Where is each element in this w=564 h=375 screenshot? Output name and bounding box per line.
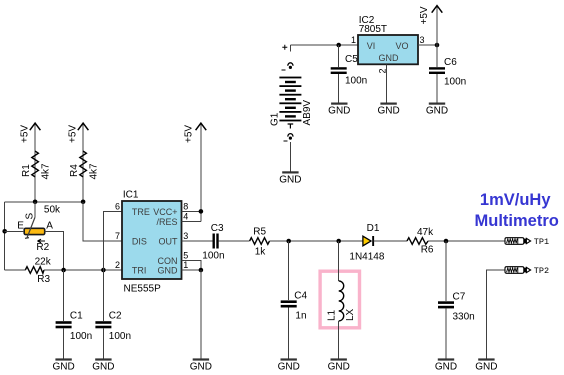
capacitor C1 xyxy=(56,270,93,358)
wire R6 to TP1 xyxy=(428,240,505,242)
capacitor C4 xyxy=(281,241,308,358)
svg-text:7805T: 7805T xyxy=(359,24,387,35)
power +5V arrow (top right) xyxy=(419,6,442,45)
wire IC2 GND pin down xyxy=(386,64,388,102)
svg-text:GND: GND xyxy=(328,362,350,373)
svg-text:DIS: DIS xyxy=(132,237,147,247)
capacitor C6 xyxy=(429,45,466,103)
svg-text:R6: R6 xyxy=(421,245,434,256)
svg-text:GND: GND xyxy=(475,362,497,373)
diode D1 1N4148 xyxy=(349,223,384,263)
svg-text:VI: VI xyxy=(367,41,376,51)
svg-text:22k: 22k xyxy=(35,257,52,268)
ground (C4) xyxy=(278,358,300,372)
svg-text:+5V: +5V xyxy=(68,125,79,143)
svg-text:7: 7 xyxy=(115,231,120,241)
ground (C6) xyxy=(426,103,448,117)
svg-text:CON: CON xyxy=(158,256,178,266)
wire D1 to R6 xyxy=(374,240,407,242)
resistor R6 47k xyxy=(407,227,434,256)
svg-text:GND: GND xyxy=(426,106,448,117)
svg-text:GND: GND xyxy=(279,175,301,186)
node pin1/pin5 junction xyxy=(199,268,204,273)
svg-text:5: 5 xyxy=(183,251,188,261)
wire C3 to R5 xyxy=(218,240,249,242)
resistor R5 1k xyxy=(250,226,270,257)
svg-text:C4: C4 xyxy=(294,291,307,302)
wire pin1 to GND xyxy=(200,270,202,358)
svg-text:GND: GND xyxy=(379,53,400,63)
ground (TP2) xyxy=(475,358,497,372)
power +5V arrow (R4) xyxy=(68,123,89,202)
battery G1 xyxy=(269,45,313,141)
svg-text:R5: R5 xyxy=(253,226,266,237)
node R4/DIS junction xyxy=(81,200,86,205)
capacitor C7 xyxy=(438,241,475,358)
svg-text:NE555P: NE555P xyxy=(124,284,162,295)
svg-text:C1: C1 xyxy=(70,310,83,321)
svg-text:100n: 100n xyxy=(202,251,224,262)
wire pin5 loop xyxy=(182,261,201,271)
svg-text:3: 3 xyxy=(183,231,188,241)
svg-text:3: 3 xyxy=(420,35,425,45)
svg-text:VCC+: VCC+ xyxy=(153,207,177,217)
svg-text:TP1: TP1 xyxy=(534,237,549,247)
svg-text:A: A xyxy=(46,221,53,232)
svg-text:GND: GND xyxy=(278,362,300,373)
wire IC2 VO to +5V/C6 xyxy=(418,44,437,46)
wire 50k rail xyxy=(5,201,83,203)
svg-text:C3: C3 xyxy=(211,223,224,234)
resistor R1 4k7 xyxy=(21,151,51,179)
connector TP2 xyxy=(505,266,549,276)
node pin6/C2 junction xyxy=(101,268,106,273)
svg-text:GND: GND xyxy=(435,362,457,373)
wire pin4 xyxy=(182,220,201,222)
svg-text:Multimetro: Multimetro xyxy=(475,212,559,230)
wire battery bottom to GND xyxy=(289,142,291,172)
svg-text:+5V: +5V xyxy=(20,125,31,143)
ground (battery) xyxy=(279,171,301,185)
wire R3 line to pin2 xyxy=(5,269,122,271)
svg-text:/RES: /RES xyxy=(156,217,177,227)
resistor R3 22k xyxy=(25,257,51,285)
svg-text:100n: 100n xyxy=(70,331,92,342)
ground (L1) xyxy=(328,358,350,372)
resistor R4 4k7 xyxy=(69,151,99,179)
svg-text:G1: G1 xyxy=(269,112,280,126)
power +5V arrow (IC1 VCC) xyxy=(184,123,207,221)
wire pin3 to C3 xyxy=(182,240,213,242)
wire pin8 xyxy=(182,210,201,212)
wire TP2 xyxy=(486,270,505,358)
ground (IC1) xyxy=(190,358,212,372)
svg-text:GND: GND xyxy=(52,362,74,373)
svg-text:2: 2 xyxy=(377,68,387,73)
svg-text:TRI: TRI xyxy=(132,266,147,276)
svg-text:GND: GND xyxy=(328,106,350,117)
svg-text:1N4148: 1N4148 xyxy=(349,252,384,263)
svg-text:GND: GND xyxy=(158,266,179,276)
inductor L1 LX xyxy=(320,241,359,358)
capacitor C2 xyxy=(95,270,131,358)
wire left rail down xyxy=(4,202,6,270)
svg-text:4: 4 xyxy=(183,212,188,222)
svg-text:TP2: TP2 xyxy=(534,266,549,276)
wire pin1 xyxy=(182,269,201,271)
svg-text:100n: 100n xyxy=(109,331,131,342)
svg-text:330n: 330n xyxy=(453,311,475,322)
svg-text:GND: GND xyxy=(92,362,114,373)
svg-text:LX: LX xyxy=(345,308,356,321)
svg-text:100n: 100n xyxy=(444,77,466,88)
svg-text:2: 2 xyxy=(115,260,120,270)
power +5V arrow (R1) xyxy=(20,123,41,202)
node C7 junction xyxy=(444,239,449,244)
svg-text:AB9V: AB9V xyxy=(302,100,313,126)
capacitor C5 xyxy=(331,45,368,103)
svg-text:IC1: IC1 xyxy=(123,190,139,201)
node C4 junction xyxy=(286,239,291,244)
svg-text:1k: 1k xyxy=(255,247,267,258)
label title 1mV/uHy Multimetro xyxy=(475,191,559,230)
svg-text:OUT: OUT xyxy=(159,237,179,247)
svg-text:C7: C7 xyxy=(453,292,466,303)
svg-text:4k7: 4k7 xyxy=(40,163,51,180)
capacitor C3 xyxy=(202,223,224,262)
svg-text:R3: R3 xyxy=(37,274,50,285)
svg-text:+5V: +5V xyxy=(419,6,430,24)
ground (C7) xyxy=(435,358,457,372)
wire R5 to D1 xyxy=(270,240,364,242)
wire R4 to pin7 xyxy=(83,202,122,241)
svg-text:8: 8 xyxy=(183,202,188,212)
svg-text:S: S xyxy=(24,213,35,220)
svg-text:R1: R1 xyxy=(21,164,32,177)
ground (IC2 pin2) xyxy=(377,103,399,117)
node pin8/+5V junction xyxy=(199,209,204,214)
svg-text:R2: R2 xyxy=(36,242,49,253)
ground (C1) xyxy=(52,358,74,372)
connector TP1 xyxy=(505,237,549,247)
svg-text:47k: 47k xyxy=(417,227,434,238)
regulator IC2 7805T xyxy=(358,15,418,64)
svg-text:1n: 1n xyxy=(295,311,306,322)
svg-text:+5V: +5V xyxy=(184,125,195,143)
svg-text:4k7: 4k7 xyxy=(88,163,99,180)
svg-text:C6: C6 xyxy=(444,57,457,68)
svg-text:TRE: TRE xyxy=(132,207,150,217)
svg-text:1: 1 xyxy=(351,35,356,45)
svg-text:1: 1 xyxy=(183,260,188,270)
svg-text:C2: C2 xyxy=(109,310,122,321)
svg-text:R4: R4 xyxy=(69,164,80,177)
svg-text:50k: 50k xyxy=(44,205,61,216)
svg-text:100n: 100n xyxy=(345,76,367,87)
svg-text:D1: D1 xyxy=(367,223,380,234)
svg-text:E: E xyxy=(17,221,24,232)
svg-text:GND: GND xyxy=(377,106,399,117)
node E tap junction xyxy=(2,229,7,234)
ground (C5) xyxy=(328,103,350,117)
wire A terminal down xyxy=(45,231,64,270)
wire battery + to IC2 VI xyxy=(290,44,358,46)
wire E terminal xyxy=(5,230,25,232)
ground (C2) xyxy=(92,358,114,372)
node VO/C6/+5V junction xyxy=(435,43,440,48)
svg-text:C5: C5 xyxy=(345,54,358,65)
potentiometer R2 50k xyxy=(17,202,53,253)
node L1 junction xyxy=(336,239,341,244)
node A/C1 junction xyxy=(61,268,66,273)
svg-text:GND: GND xyxy=(190,362,212,373)
node R1/wiper junction xyxy=(33,200,38,205)
node battery/C5/VI junction xyxy=(336,43,341,48)
svg-text:1mV/uHy: 1mV/uHy xyxy=(480,191,551,209)
timer IC1 NE555P xyxy=(122,190,182,295)
svg-text:VO: VO xyxy=(395,41,408,51)
svg-text:L1: L1 xyxy=(327,309,338,321)
svg-text:6: 6 xyxy=(115,202,120,212)
wire pin6 loop xyxy=(103,211,122,270)
